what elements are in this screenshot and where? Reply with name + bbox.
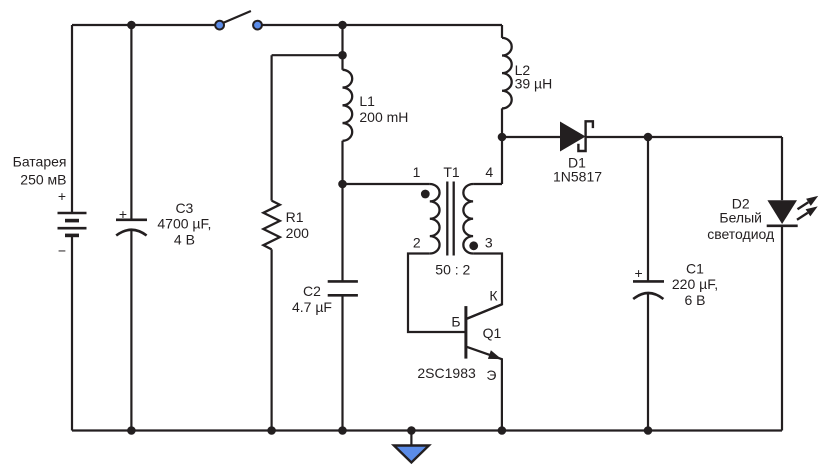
transformer T1 secondary winding (463, 184, 473, 254)
D2 emission arrow 1 (798, 196, 819, 209)
svg-text:50 : 2: 50 : 2 (435, 262, 470, 278)
wire node D to D1 anode (502, 136, 560, 138)
wire R1 bottom lead (271, 249, 273, 430)
svg-text:+: + (58, 188, 66, 204)
svg-text:220 µF,: 220 µF, (672, 276, 718, 292)
svg-text:−: − (58, 242, 66, 258)
wire C2 bottom lead (341, 295, 343, 430)
svg-text:39 µH: 39 µH (515, 76, 553, 92)
svg-text:1N5817: 1N5817 (553, 169, 602, 185)
wire battery positive lead (71, 25, 73, 213)
T1 secondary phase dot (469, 241, 478, 250)
svg-text:1: 1 (413, 164, 421, 180)
svg-text:250 мВ: 250 мВ (20, 172, 66, 188)
transformer T1 core (447, 182, 453, 256)
wire C1 bottom lead (647, 293, 649, 431)
LED D2 (767, 200, 798, 226)
junction node top rail at C3 (127, 21, 136, 30)
wire D1 cathode to D2 branch (586, 136, 782, 138)
svg-text:+: + (635, 265, 643, 281)
svg-text:C1: C1 (686, 261, 704, 277)
wire D2 cathode lead (781, 226, 783, 431)
junction node R1/L1 (338, 51, 347, 60)
wire T1 pin4 entry horizontal (473, 183, 502, 185)
wire C3 top lead (130, 25, 132, 220)
transformer T1 primary winding (430, 184, 440, 254)
svg-text:4.7 µF: 4.7 µF (292, 299, 332, 315)
svg-text:200 mH: 200 mH (359, 109, 408, 125)
wire battery negative lead (71, 235, 73, 430)
wire D2 anode lead (781, 137, 783, 200)
svg-text:3: 3 (485, 235, 493, 251)
svg-text:Б: Б (451, 314, 460, 330)
inductor L2 (502, 38, 512, 109)
svg-text:светодиод: светодиод (707, 226, 774, 242)
wire C3 bottom lead (130, 230, 132, 431)
junction node L2/D1 (498, 133, 507, 142)
svg-text:4: 4 (485, 164, 493, 180)
svg-text:+: + (119, 206, 127, 222)
transistor Q1 (466, 304, 502, 359)
svg-text:2SC1983: 2SC1983 (417, 365, 476, 381)
wire T1 pin2 to Q1 base loop (408, 254, 465, 333)
wire bottom ground rail (72, 429, 782, 431)
resistor R1 (263, 201, 279, 250)
svg-text:4700 µF,: 4700 µF, (157, 216, 211, 232)
wire node C to T1 pin 1 (343, 183, 430, 185)
ground (394, 431, 429, 463)
svg-text:Белый: Белый (719, 210, 762, 226)
wire L2 bottom lead to T1 pin 4 (501, 108, 503, 184)
svg-text:C2: C2 (303, 283, 321, 299)
svg-text:6 В: 6 В (684, 292, 705, 308)
wire L1 bottom lead to node C (341, 141, 343, 282)
wire R1 top lead (271, 55, 273, 200)
junction node bottom rail at C1 (644, 426, 653, 435)
svg-text:R1: R1 (286, 209, 304, 225)
wire L2 top lead (501, 25, 503, 38)
svg-text:К: К (489, 288, 498, 304)
battery BT1 (58, 213, 87, 235)
wire Q1 emitter lead to ground rail (467, 347, 502, 431)
svg-text:L1: L1 (359, 93, 375, 109)
junction node L1/C2/T1 (338, 180, 347, 189)
wire L1 top lead from top rail (341, 25, 343, 70)
svg-text:4 В: 4 В (174, 231, 195, 247)
svg-text:Q1: Q1 (483, 325, 502, 341)
wire T1 pin3 to Q1 collector (467, 254, 502, 319)
D2 emission arrow 2 (797, 206, 818, 219)
svg-text:C3: C3 (175, 200, 193, 216)
junction node bottom rail at Q1 emitter (498, 426, 507, 435)
wire top rail right segment (260, 24, 503, 26)
capacitor C2 (328, 281, 358, 295)
svg-text:200: 200 (286, 225, 310, 241)
junction node bottom rail at C2 (338, 426, 347, 435)
svg-text:T1: T1 (443, 164, 460, 180)
junction node bottom rail at ground (407, 426, 416, 435)
junction node D1/C1 (644, 133, 653, 142)
junction node top rail at L1 (338, 21, 347, 30)
svg-text:Э: Э (486, 367, 496, 383)
wire C1 top lead (647, 137, 649, 281)
switch S1 (215, 11, 262, 30)
inductor L1 (343, 70, 353, 141)
capacitor C1 (633, 281, 664, 299)
T1 primary phase dot (421, 190, 430, 199)
svg-text:2: 2 (413, 235, 421, 251)
junction node bottom rail at C3 (127, 426, 136, 435)
wire top rail left segment (72, 24, 217, 26)
svg-text:Батарея: Батарея (13, 154, 67, 170)
capacitor C3 (116, 220, 147, 236)
diode D1 (560, 121, 593, 151)
wire R1 top horizontal to node B (272, 54, 343, 56)
junction node bottom rail at R1 (267, 426, 276, 435)
